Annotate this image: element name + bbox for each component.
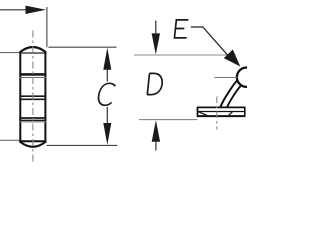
arrow: C dimension upper arrowhead pointing up: [103, 48, 111, 70]
hinge pin: top dome arc: [20, 47, 47, 53]
hinge pin: top chord line: [19, 52, 46, 54]
bracket: arm outer curve: [220, 80, 237, 107]
bracket: base plate right edge: [244, 107, 246, 117]
wire: D dimension top extension line: [134, 54, 236, 56]
centerline: pin vertical centerline (dashed): [32, 31, 34, 163]
hinge pin: right body edge: [44, 53, 46, 142]
wire: top-left dimension leader line: [0, 9, 28, 11]
hinge pin: knuckle joint band 3: [19, 117, 46, 119]
label D: [147, 73, 163, 94]
centerline: countersink vertical centerline (dashed): [216, 97, 218, 130]
bracket: countersink right diagonal: [228, 112, 232, 116]
bracket: base plate top edge: [197, 106, 245, 108]
bracket: base plate left edge: [197, 107, 199, 117]
wire: C dimension bottom extension line: [47, 144, 118, 146]
centerline: knuckle horizontal tick: [215, 77, 238, 79]
wire: left extension line at pin top: [0, 52, 19, 54]
arrow: C dimension lower arrowhead pointing down: [103, 123, 111, 145]
label C: [97, 83, 116, 105]
bracket: knuckle circle: [237, 68, 256, 87]
arrow: E leader arrowhead pointing down-right: [224, 50, 241, 67]
hinge pin: left body edge: [19, 53, 21, 142]
bracket: base plate inner line: [197, 111, 245, 113]
wire: C dimension line upper segment: [106, 70, 108, 82]
arrow: D dimension top arrowhead pointing down: [152, 33, 160, 54]
hinge pin: bottom chord line: [19, 140, 46, 142]
hinge pin: knuckle joint band 1: [19, 73, 46, 76]
hinge pin: knuckle joint band 2: [19, 95, 46, 97]
wire: D dimension line above top arrow: [155, 21, 157, 35]
wire: D dimension line below bottom arrow: [155, 142, 157, 151]
label E: [174, 20, 188, 38]
wire: C dimension line lower segment: [106, 107, 108, 123]
arrow: D dimension bottom arrowhead pointing up: [152, 120, 160, 142]
wire: left extension line at pin bottom: [0, 139, 19, 141]
wire: E leader line horizontal segment: [191, 27, 230, 57]
wire: D dimension bottom extension line: [139, 119, 197, 121]
arrow: top-left dimension arrowhead pointing right: [26, 6, 47, 14]
bracket: countersink left diagonal: [199, 112, 208, 116]
wire: C dimension top extension line: [48, 46, 116, 48]
hinge pin: bottom dome arc: [20, 141, 47, 146]
wire: vertical extension line right of pin: [46, 7, 48, 47]
bracket: base plate bottom edge: [197, 115, 245, 117]
bracket: arm inner curve: [227, 85, 241, 107]
